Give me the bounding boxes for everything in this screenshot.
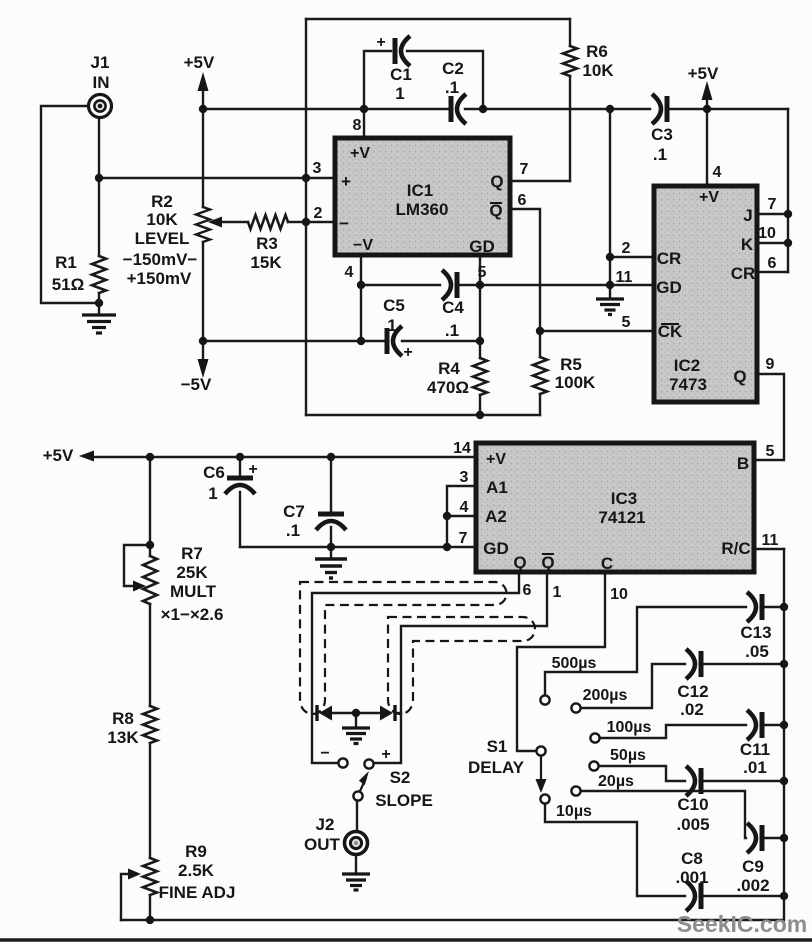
svg-text:S1: S1 — [487, 737, 508, 756]
node pin2/x306 — [302, 218, 310, 226]
svg-text:500µs: 500µs — [552, 655, 597, 672]
svg-text:10K: 10K — [146, 210, 178, 229]
svg-text:.02: .02 — [680, 700, 704, 719]
svg-text:10µs: 10µs — [556, 803, 592, 820]
svg-text:−150mV−: −150mV− — [123, 250, 198, 269]
svg-text:13K: 13K — [107, 728, 139, 747]
svg-text:5: 5 — [478, 264, 487, 281]
dashed shield capsule 2 (around Qbar wire) — [388, 617, 535, 714]
wire R1 bottom lead — [98, 293, 100, 303]
svg-text:R7: R7 — [181, 544, 203, 563]
wire S1 200us contact to C12 row — [581, 664, 685, 708]
svg-text:50µs: 50µs — [610, 747, 646, 764]
node pin5/C5 row — [476, 337, 484, 345]
svg-text:J1: J1 — [91, 53, 110, 72]
svg-text:SeekIC.com: SeekIC.com — [677, 911, 807, 937]
capacitor C9 — [747, 823, 762, 853]
wire IC1 pin 4 down — [360, 255, 362, 285]
capacitor C2 — [451, 94, 466, 124]
wire R6 bottom lead to Q pin7 — [569, 76, 571, 181]
+5V arrow bottom left (points left) — [79, 451, 94, 462]
svg-text:.001: .001 — [675, 868, 708, 887]
node ground column top — [606, 105, 614, 113]
wire J1 left loop — [41, 106, 99, 303]
wire -5V stem — [202, 341, 204, 362]
R7 wiper arrow — [133, 581, 146, 592]
ground (below R1) — [82, 315, 116, 333]
wire IC2 K pin10 row — [757, 242, 788, 244]
wire bottom row — [121, 919, 783, 921]
svg-text:J2: J2 — [316, 815, 335, 834]
node GD bracket — [443, 543, 451, 551]
svg-text:C10: C10 — [677, 795, 708, 814]
svg-text:K: K — [741, 235, 754, 254]
wire R8-R9 column — [149, 743, 151, 858]
node C7 top — [327, 453, 335, 461]
switch S1 DELAY — [536, 695, 600, 803]
wire J1 down lead — [98, 119, 100, 256]
wire C1 branch right leg — [407, 51, 483, 109]
node C7/ground row — [327, 543, 335, 551]
svg-text:3: 3 — [460, 469, 469, 486]
node bus C12 — [780, 660, 788, 668]
R9 wiper arrow — [128, 869, 141, 880]
wire C7 bottom lead — [330, 527, 332, 558]
wire right capacitor bus — [783, 549, 785, 920]
node pin3/x306 — [302, 174, 310, 182]
svg-text:.002: .002 — [736, 876, 769, 895]
svg-text:C5: C5 — [383, 296, 405, 315]
svg-text:C3: C3 — [651, 125, 673, 144]
svg-text:C6: C6 — [203, 463, 225, 482]
svg-text:200µs: 200µs — [583, 687, 628, 704]
wire J2 ground stub — [355, 855, 357, 872]
svg-text:2: 2 — [622, 240, 631, 257]
wire IC1 Qbar pin 6 to R5 column — [510, 209, 540, 357]
resistor R8 — [143, 706, 157, 743]
svg-text:+: + — [341, 172, 351, 191]
svg-text:100K: 100K — [555, 373, 596, 392]
resistor R2 (pot) — [196, 207, 210, 242]
wire R2 wiper lead to R3 — [213, 221, 248, 223]
svg-text:GD: GD — [483, 539, 509, 558]
node K pin10 bus — [784, 239, 792, 247]
wire IC2 +5V pin 4 — [706, 97, 708, 186]
svg-text:+V: +V — [486, 451, 506, 468]
wire R2 column lower to -5V row — [202, 242, 204, 341]
svg-text:.1: .1 — [286, 521, 300, 540]
svg-text:−5V: −5V — [181, 375, 212, 394]
wire C6 bottom lead — [239, 492, 241, 547]
wire S2 pole to J2 — [356, 801, 358, 832]
svg-text:+: + — [248, 461, 257, 478]
+5V arrow at IC2 pin4 — [702, 81, 713, 100]
resistor R4 — [473, 358, 487, 395]
svg-text:B: B — [737, 454, 749, 473]
svg-text:R8: R8 — [112, 709, 134, 728]
wire ground row y547 to IC3 GD — [240, 546, 476, 548]
svg-text:C: C — [601, 554, 613, 573]
capacitor C6 (electrolytic) — [225, 478, 255, 494]
wire ground column x610 — [609, 109, 611, 297]
svg-text:A2: A2 — [485, 507, 507, 526]
svg-text:R6: R6 — [586, 42, 608, 61]
resistor R5 — [533, 357, 547, 394]
wire diode row — [331, 712, 381, 714]
svg-text:6: 6 — [518, 192, 527, 209]
wire R7 column top — [149, 457, 151, 556]
capacitor C11 — [747, 710, 762, 740]
resistor R1 — [92, 256, 106, 293]
svg-text:C4: C4 — [442, 298, 464, 317]
capacitor C1 (electrolytic) — [395, 36, 410, 66]
wire IC1 pin 5 down — [479, 255, 481, 358]
svg-text:2: 2 — [314, 205, 323, 222]
svg-text:SLOPE: SLOPE — [375, 791, 433, 810]
svg-text:Q: Q — [541, 553, 554, 572]
node A2 bracket — [443, 512, 451, 520]
node pin5/C4 row — [476, 281, 484, 289]
svg-text:5: 5 — [766, 443, 775, 460]
svg-text:R/C: R/C — [721, 539, 750, 558]
IC3 74121 body — [476, 443, 754, 573]
node bus C11 — [780, 721, 788, 729]
wire R2 column upper — [202, 109, 204, 207]
svg-text:LEVEL: LEVEL — [135, 229, 190, 248]
capacitor C12 — [686, 649, 701, 679]
svg-text:R9: R9 — [185, 842, 207, 861]
node R1 bottom — [95, 299, 103, 307]
svg-text:10: 10 — [610, 586, 628, 603]
wire IC3 A1 row — [447, 486, 476, 547]
node bus C9 — [780, 834, 788, 842]
wire S1 50us contact to C10 row — [599, 766, 685, 781]
node +5V/row — [199, 105, 207, 113]
node R5/CK row — [536, 327, 544, 335]
svg-text:R3: R3 — [256, 234, 278, 253]
svg-text:.1: .1 — [445, 321, 459, 340]
svg-text:+: + — [403, 344, 412, 361]
node R9 bottom — [146, 916, 154, 924]
svg-text:R4: R4 — [438, 359, 460, 378]
svg-text:Q: Q — [513, 553, 526, 572]
wire pin4 column to C5 row — [360, 285, 362, 341]
wire IC2 J pin7 row — [757, 213, 788, 215]
svg-text:.005: .005 — [676, 815, 709, 834]
svg-text:7: 7 — [520, 161, 529, 178]
node J pin7 bus — [784, 210, 792, 218]
svg-text:CR: CR — [657, 249, 682, 268]
svg-text:Q: Q — [733, 367, 746, 386]
wire R9 wiper loop — [121, 874, 129, 920]
svg-text:11: 11 — [616, 269, 633, 286]
wire C4 row / IC2 GD pin 11 row — [361, 284, 440, 286]
wire C1 branch left leg — [364, 51, 391, 109]
svg-text:4: 4 — [345, 264, 354, 281]
svg-text:470Ω: 470Ω — [427, 378, 469, 397]
capacitor C4 — [442, 270, 457, 300]
node bus C13 — [780, 603, 788, 611]
wire vertical node column x306 (top wire down to bottom row) — [305, 19, 307, 415]
svg-text:.1: .1 — [445, 78, 459, 97]
IC2 7473 body — [654, 186, 757, 402]
svg-text:GD: GD — [656, 278, 682, 297]
capacitor C5 (electrolytic) — [387, 326, 402, 356]
svg-text:4: 4 — [460, 499, 469, 516]
wire IC3 R/C pin 11 — [754, 548, 784, 550]
wire S1 500us contact to C13 row — [545, 607, 746, 696]
svg-text:C1: C1 — [390, 65, 412, 84]
wire R9 bottom lead — [149, 895, 151, 920]
wire Q pin 7 row — [510, 180, 570, 182]
svg-text:R1: R1 — [55, 253, 77, 272]
connector J2 OUT — [345, 832, 368, 855]
svg-text:IC3: IC3 — [611, 489, 637, 508]
svg-text:15K: 15K — [250, 253, 282, 272]
capacitor C10 — [686, 766, 701, 796]
node C1 right — [479, 105, 487, 113]
wire R1 ground stub — [98, 303, 100, 313]
svg-text:6: 6 — [523, 582, 532, 599]
svg-text:1: 1 — [395, 84, 404, 103]
node pin4/C5 row — [357, 337, 365, 345]
capacitor C13 — [747, 592, 762, 622]
svg-text:+5V: +5V — [184, 53, 215, 72]
node J1/pin3 — [95, 174, 103, 182]
svg-text:DELAY: DELAY — [468, 758, 525, 777]
node R4 bottom — [476, 411, 484, 419]
node bus C8 — [780, 892, 788, 900]
wire C5 row — [203, 340, 384, 342]
capacitor C8 — [686, 881, 701, 911]
wire IC2 CK pin 5 row — [540, 330, 654, 332]
svg-text:OUT: OUT — [304, 835, 341, 854]
wire R7 wiper loop — [124, 545, 150, 586]
svg-text:7: 7 — [459, 530, 468, 547]
svg-text:2.5K: 2.5K — [178, 861, 215, 880]
svg-text:.05: .05 — [745, 642, 769, 661]
node C6 top — [236, 453, 244, 461]
wire IC1 pin 8 — [363, 109, 365, 138]
wire R5 bottom lead — [539, 394, 541, 415]
svg-text:C8: C8 — [681, 849, 703, 868]
resistor R9 (pot FINE ADJ) — [143, 858, 157, 895]
svg-text:C2: C2 — [442, 59, 464, 78]
svg-text:8: 8 — [353, 117, 362, 134]
ground (IC2 GD column) — [596, 299, 624, 315]
svg-text:J: J — [743, 206, 752, 225]
wire C6 top lead — [239, 457, 241, 476]
resistor R6 — [563, 46, 577, 76]
node CR2/gnd column — [606, 253, 614, 261]
svg-text:FINE ADJ: FINE ADJ — [159, 883, 236, 902]
dashed shield capsule 1 (around Q wire) — [300, 582, 507, 714]
wire +5V stem top left — [202, 88, 204, 109]
wire IC2 Q pin9 to IC3 B pin5 — [754, 374, 784, 460]
wire S1 100us contact to C11 row — [600, 725, 746, 738]
wire R7-R8 column — [149, 604, 151, 706]
svg-text:MULT: MULT — [170, 582, 217, 601]
wire right diode stub — [395, 712, 401, 714]
svg-text:CR: CR — [731, 264, 756, 283]
svg-text:+150mV: +150mV — [127, 269, 192, 288]
wire main +V row y109 — [203, 108, 448, 110]
svg-text:×1−×2.6: ×1−×2.6 — [161, 605, 224, 624]
svg-text:1: 1 — [553, 584, 562, 601]
node +5V IC2 — [703, 105, 711, 113]
node C1 left — [360, 105, 368, 113]
svg-text:+V: +V — [350, 145, 370, 162]
svg-text:74121: 74121 — [598, 508, 645, 527]
svg-text:C9: C9 — [742, 857, 764, 876]
node pin4/C4 row — [357, 281, 365, 289]
wire IC2 CR pin6 row — [757, 271, 788, 273]
op-amp comparator IC1 LM360 body — [335, 138, 510, 256]
capacitor C3 — [652, 94, 667, 124]
svg-text:10: 10 — [758, 225, 776, 242]
svg-text:51Ω: 51Ω — [52, 275, 85, 294]
svg-text:14: 14 — [453, 440, 471, 457]
diode D1 (left, slope) — [317, 705, 332, 721]
wire diode center ground stub — [355, 713, 357, 726]
svg-text:R2: R2 — [151, 192, 173, 211]
wire R3 to IC1 pin 2 — [288, 221, 335, 223]
+5V arrow top left — [198, 72, 209, 91]
svg-text:1: 1 — [208, 484, 217, 503]
wire IC2 CR pin 2 row — [610, 256, 654, 258]
node R7 top — [146, 453, 154, 461]
node R2/-5V row — [199, 337, 207, 345]
ground (below C7) — [315, 559, 347, 578]
svg-text:Q: Q — [490, 172, 503, 191]
svg-text:−: − — [320, 745, 329, 762]
ground (between slope diodes) — [342, 728, 370, 744]
svg-text:A1: A1 — [486, 478, 508, 497]
wire bottom row of comparator section — [306, 414, 540, 416]
svg-text:−V: −V — [353, 237, 373, 254]
wire +5V row y457 — [93, 456, 476, 458]
svg-text:−: − — [339, 214, 349, 233]
wire R4 bottom lead — [479, 395, 481, 415]
wire right column to IC2 J/K/CR pins — [787, 109, 789, 272]
resistor R7 (pot MULT) — [143, 556, 157, 604]
svg-text:25K: 25K — [176, 563, 208, 582]
capacitor C7 — [316, 514, 346, 530]
svg-text:.01: .01 — [743, 758, 767, 777]
svg-text:LM360: LM360 — [396, 200, 449, 219]
wire top feedback (pin3 to R6 top) — [306, 18, 570, 20]
node GD11/gnd column — [606, 281, 614, 289]
connector J1 IN — [89, 95, 112, 118]
diode D2 (right, slope) — [380, 705, 395, 721]
svg-text:IN: IN — [93, 73, 110, 92]
svg-text:4: 4 — [713, 164, 722, 181]
svg-text:C7: C7 — [283, 502, 305, 521]
wire IC3 A2 row — [447, 515, 476, 517]
resistor R3 — [248, 215, 288, 229]
-5V arrow — [198, 359, 209, 378]
svg-text:+: + — [381, 746, 390, 763]
svg-text:3: 3 — [313, 160, 322, 177]
svg-text:7473: 7473 — [669, 375, 707, 394]
svg-text:IC2: IC2 — [674, 356, 700, 375]
svg-text:+5V: +5V — [43, 446, 74, 465]
svg-text:C13: C13 — [740, 623, 771, 642]
node diode center — [352, 709, 360, 717]
svg-text:C12: C12 — [677, 682, 708, 701]
switch S2 SLOPE — [338, 758, 373, 800]
wire S1 10us contact to C8 row — [545, 804, 685, 896]
svg-text:+: + — [376, 34, 385, 51]
svg-text:6: 6 — [768, 255, 777, 272]
bottom border line — [0, 938, 812, 942]
R2 wiper arrow — [208, 217, 222, 228]
svg-text:20µs: 20µs — [598, 773, 634, 790]
wire R6 top lead — [569, 19, 571, 46]
svg-text:9: 9 — [766, 356, 775, 373]
wire S1 20us contact to C9 row — [581, 791, 746, 838]
svg-text:100µs: 100µs — [607, 719, 652, 736]
svg-text:R5: R5 — [560, 355, 582, 374]
wire IC3 Qbar pin1 (wire B) — [374, 572, 547, 763]
svg-text:GD: GD — [469, 237, 495, 256]
wire C7 top lead — [330, 457, 332, 512]
svg-text:C11: C11 — [740, 740, 770, 759]
node R7 wiper — [146, 541, 154, 549]
svg-text:+5V: +5V — [688, 64, 719, 83]
svg-text:5: 5 — [622, 314, 631, 331]
wire pin 3 row — [99, 177, 335, 179]
wire IC3 Q pin6 (wire A) — [312, 572, 519, 763]
ground (below J2) — [342, 874, 370, 890]
svg-text:IC1: IC1 — [407, 181, 433, 200]
svg-text:1: 1 — [387, 316, 396, 335]
svg-text:S2: S2 — [390, 768, 411, 787]
svg-text:.1: .1 — [653, 145, 667, 164]
svg-text:+V: +V — [699, 189, 719, 206]
svg-text:10K: 10K — [582, 61, 614, 80]
svg-text:7: 7 — [768, 196, 777, 213]
node bus C10 — [780, 777, 788, 785]
svg-text:11: 11 — [762, 532, 779, 549]
wire IC3 C pin10 to S1 pole — [517, 572, 605, 751]
